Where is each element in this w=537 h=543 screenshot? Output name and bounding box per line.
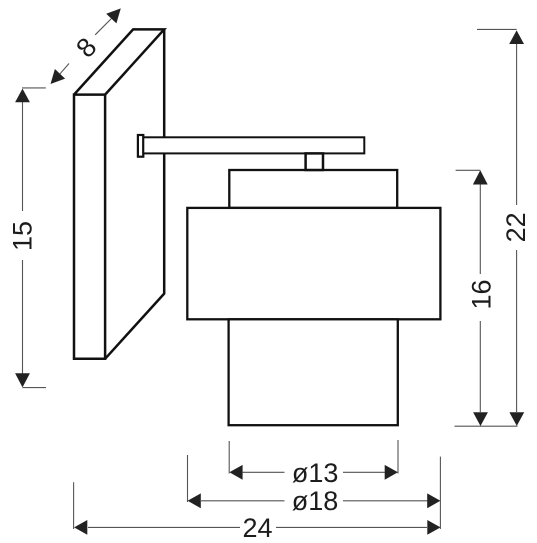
svg-text:ø13: ø13 [292,458,339,488]
dimension ø18 [188,455,441,529]
svg-text:16: 16 [466,279,496,309]
lamp main shade [187,208,440,319]
svg-text:22: 22 [501,212,531,242]
dimension 16 [456,170,481,412]
lamp lower tier [229,319,398,425]
dimension ø13 [229,440,398,474]
arm flange [138,135,143,157]
dimension 24 [74,482,427,529]
svg-text:ø18: ø18 [292,486,339,516]
dimension 22 [455,29,518,426]
dimension 15 [22,88,46,388]
arm [143,137,364,153]
stem [306,153,323,170]
dimension 8 [60,19,111,74]
svg-text:15: 15 [8,221,38,251]
lamp upper tier [229,170,397,208]
svg-text:24: 24 [242,513,272,543]
wall plate [74,29,164,358]
